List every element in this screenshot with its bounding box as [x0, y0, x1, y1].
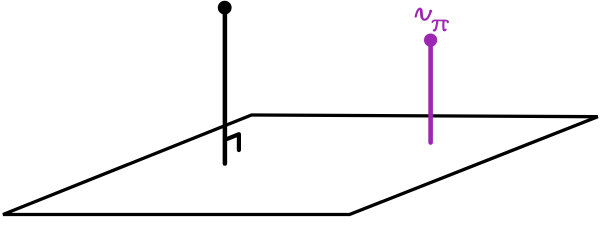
- right angle mark: [225, 134, 239, 150]
- point of v_pi: [424, 34, 437, 47]
- normal line: [223, 8, 228, 164]
- label v_pi : letter v: [416, 9, 432, 20]
- point at top of normal: [218, 1, 232, 15]
- vector v_pi line: [428, 41, 433, 143]
- plane (parallelogram): [3, 115, 598, 215]
- label v_pi : subscript pi: [432, 20, 448, 30]
